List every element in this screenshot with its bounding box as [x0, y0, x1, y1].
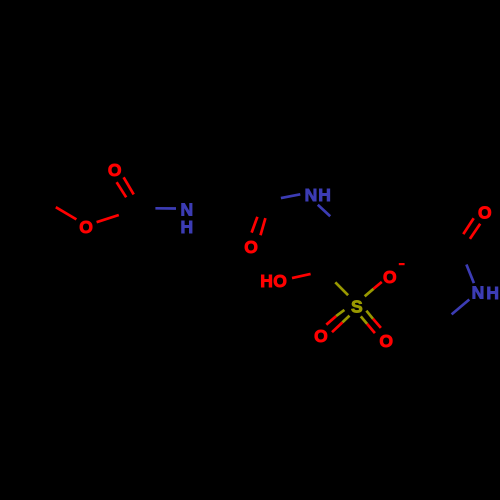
svg-text:N: N: [472, 283, 485, 303]
wire O-C carbamate: [97, 215, 119, 222]
svg-text:S: S: [351, 296, 363, 316]
svg-text:O: O: [478, 202, 492, 222]
svg-text:O: O: [273, 271, 287, 291]
svg-text:H: H: [260, 271, 273, 291]
wire S=O lower-right a S half: [361, 316, 367, 324]
wire S=O lower-right a O half: [367, 324, 375, 333]
svg-text:N: N: [305, 185, 318, 205]
wire C=O amide mid a: [252, 217, 258, 233]
svg-text:H: H: [180, 217, 193, 237]
wire S=O lower-left b O half: [332, 322, 342, 332]
wire CH3-O (O half): [56, 207, 77, 219]
wire S-O minus (O half): [374, 282, 382, 289]
svg-text:O: O: [79, 217, 93, 237]
wire C=O amide mid b: [261, 218, 266, 235]
wire S=O lower-right b S half: [366, 311, 373, 319]
wire C=O amide right a: [463, 218, 473, 234]
wire S=O lower-left a S half: [336, 310, 344, 316]
svg-text:H: H: [318, 185, 331, 205]
wire S=O lower-left a O half: [326, 316, 336, 325]
wire C-N amide mid: [281, 194, 300, 198]
wire N-CH3 right (N half): [452, 300, 470, 315]
wire S=O lower-left b S half: [342, 316, 349, 323]
wire S=O lower-right b O half: [373, 319, 381, 328]
svg-text:H: H: [486, 283, 499, 303]
wire C-S (S half): [335, 282, 348, 295]
svg-text:O: O: [244, 237, 258, 257]
svg-text:O: O: [383, 267, 397, 287]
wire N-C central (N half): [318, 205, 330, 216]
svg-text:O: O: [314, 326, 328, 346]
charge minus: [399, 263, 405, 265]
svg-text:O: O: [108, 160, 122, 180]
wire C-N amide right (N half): [466, 265, 474, 284]
wire C=O double left b: [124, 177, 134, 194]
wire C-N carbamate: [155, 207, 176, 210]
wire O-C central (O half): [292, 274, 311, 278]
wire C=O double left a: [117, 182, 127, 197]
svg-text:O: O: [379, 331, 393, 351]
wire S-O minus (S half): [365, 289, 374, 297]
wire C=O amide right b: [470, 224, 480, 239]
